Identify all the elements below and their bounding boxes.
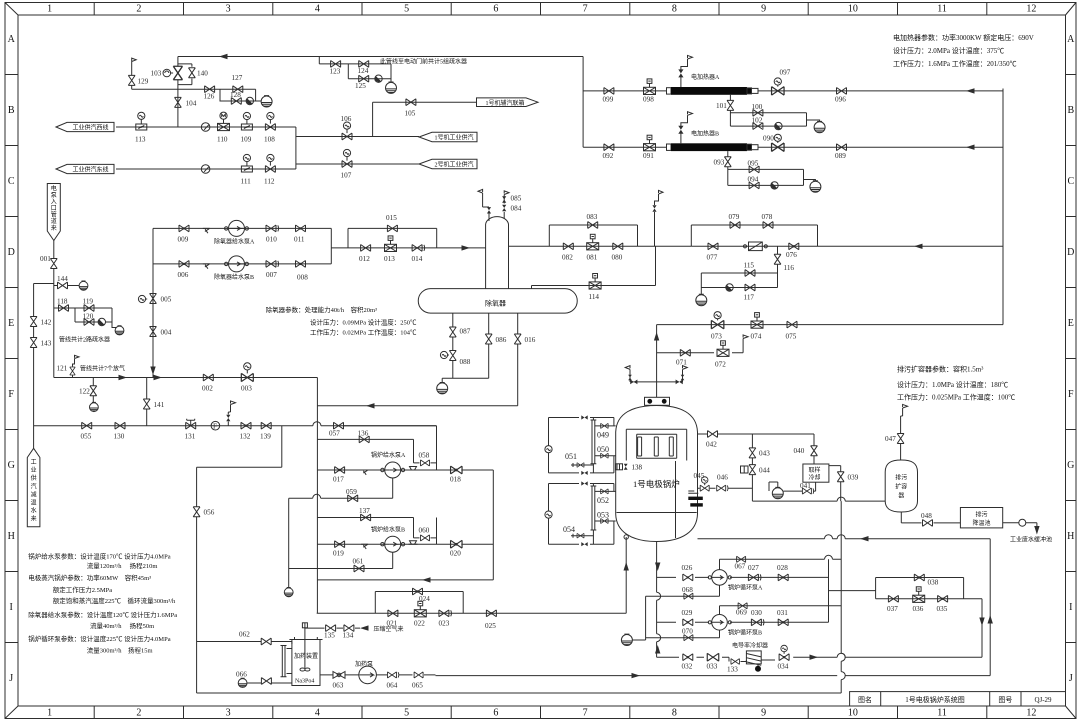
valve 060	[421, 535, 430, 541]
wire: drain header	[54, 378, 318, 614]
valve 091	[644, 135, 656, 151]
svg-text:扩容: 扩容	[895, 483, 907, 491]
svg-text:11: 11	[937, 4, 947, 15]
top isolation valve upper loop	[581, 415, 587, 419]
valve 067	[737, 556, 746, 562]
wire: boiler steam side drain 042	[698, 434, 815, 464]
svg-text:12: 12	[1026, 4, 1036, 15]
check valve 064	[388, 672, 399, 678]
svg-text:132: 132	[240, 433, 251, 441]
svg-text:139: 139	[260, 433, 271, 441]
valve 124	[359, 61, 369, 68]
valve 047 with flag	[901, 408, 903, 460]
wire: boiler water sample line 045/046	[698, 487, 753, 489]
svg-text:016: 016	[525, 336, 536, 344]
svg-text:025: 025	[485, 622, 496, 630]
valve 133	[731, 659, 740, 665]
svg-text:管线共计2路疏水器: 管线共计2路疏水器	[59, 336, 110, 344]
steam trap 117 line	[726, 284, 733, 291]
valve 055	[82, 422, 92, 429]
valve 018	[451, 466, 463, 474]
svg-text:1: 1	[47, 708, 52, 719]
drain valve 051	[573, 464, 593, 466]
wire: line to unit2 industrial steam	[296, 163, 419, 165]
wire: 136 recirc line	[317, 439, 436, 463]
check valve 010	[266, 225, 279, 232]
svg-text:081: 081	[587, 254, 598, 262]
boiler vessel shell	[616, 406, 698, 542]
valve 132	[241, 422, 251, 429]
valve 028	[778, 574, 788, 581]
svg-text:此管线至电动门前共计5组疏水器: 此管线至电动门前共计5组疏水器	[380, 58, 467, 66]
svg-text:取样: 取样	[809, 466, 821, 474]
valve 031	[778, 619, 788, 626]
wire: feed pump suction line from deaerator	[317, 405, 517, 407]
svg-text:112: 112	[264, 178, 275, 186]
svg-text:105: 105	[405, 110, 416, 118]
valve 079	[730, 222, 740, 229]
reducing valve 036	[913, 587, 925, 603]
drain pot for 118 group	[115, 326, 124, 335]
wire: main steam line E row	[657, 324, 1003, 326]
svg-text:085: 085	[511, 195, 522, 203]
svg-text:060: 060	[419, 527, 430, 535]
deaerator feed pump A	[225, 220, 249, 236]
svg-text:140: 140	[197, 70, 208, 78]
svg-text:144: 144	[57, 275, 68, 283]
valve 033	[707, 653, 719, 661]
svg-text:040: 040	[794, 447, 805, 455]
svg-text:103: 103	[151, 70, 162, 78]
svg-text:1号电极锅炉系统图: 1号电极锅炉系统图	[905, 695, 965, 704]
svg-text:电: 电	[51, 185, 57, 193]
drain pot with valve 066	[238, 678, 247, 687]
circulating pump B	[708, 615, 731, 631]
valve 103	[173, 66, 182, 80]
valve 099	[604, 88, 614, 95]
wire: desuperheating water line (F row)	[34, 425, 437, 427]
wire: branch to unit1 aux steam header	[373, 102, 477, 136]
deaerator feed pump B	[225, 256, 249, 272]
valve 015	[387, 225, 397, 232]
svg-text:1号机辅汽联箱: 1号机辅汽联箱	[485, 99, 524, 107]
svg-text:G: G	[8, 460, 15, 471]
valve 003	[241, 373, 253, 381]
svg-text:工作压力：0.02MPa 工作温度：104℃: 工作压力：0.02MPa 工作温度：104℃	[310, 328, 417, 337]
svg-text:除氧器给水泵B: 除氧器给水泵B	[214, 273, 254, 281]
electrode assembly internals	[626, 429, 686, 460]
svg-text:电加热器B: 电加热器B	[691, 129, 719, 137]
valve 011	[296, 225, 306, 232]
strainer A	[203, 228, 210, 233]
svg-text:064: 064	[387, 682, 398, 690]
svg-text:029: 029	[682, 609, 693, 617]
flow element	[743, 242, 767, 251]
svg-text:116: 116	[784, 264, 795, 272]
svg-text:J: J	[1069, 673, 1073, 684]
dosing tank	[289, 637, 322, 686]
reducing valve 013	[385, 236, 397, 252]
trap loop 115/117	[701, 273, 777, 288]
svg-text:E: E	[8, 318, 14, 329]
svg-text:B: B	[1067, 105, 1074, 116]
svg-text:065: 065	[412, 682, 423, 690]
valve 096	[837, 88, 847, 95]
svg-text:084: 084	[511, 205, 522, 213]
svg-text:032: 032	[682, 663, 693, 671]
svg-text:045: 045	[694, 472, 705, 480]
svg-text:除氧器给水泵A: 除氧器给水泵A	[214, 238, 255, 246]
deaerator vessel	[418, 289, 577, 314]
svg-text:120: 120	[83, 313, 94, 321]
internal downcomer	[675, 461, 677, 538]
wire: line to unit1 industrial steam	[296, 136, 419, 138]
valve 025	[486, 610, 496, 617]
svg-text:078: 078	[762, 213, 773, 221]
wire: 129 header to 104 branch	[132, 88, 220, 90]
svg-text:033: 033	[707, 663, 718, 671]
svg-text:H: H	[1067, 531, 1074, 542]
valve 134	[344, 625, 354, 632]
svg-text:134: 134	[343, 632, 354, 640]
svg-text:113: 113	[135, 136, 146, 144]
banner 工业供汽东线	[56, 164, 114, 173]
column safety vent with flag	[483, 193, 489, 221]
heater B vent with flag	[681, 115, 688, 143]
svg-text:流量300m³/h 扬程15m: 流量300m³/h 扬程15m	[87, 646, 153, 655]
svg-text:排污扩容器参数：容积1.5m³: 排污扩容器参数：容积1.5m³	[897, 365, 983, 374]
svg-text:082: 082	[562, 254, 573, 262]
svg-text:F: F	[213, 422, 217, 430]
svg-text:加药装置: 加药装置	[294, 652, 318, 660]
svg-text:037: 037	[887, 605, 898, 613]
svg-text:003: 003	[241, 385, 252, 393]
svg-text:加药泵: 加药泵	[355, 660, 373, 668]
svg-text:道: 道	[51, 217, 57, 225]
svg-text:127: 127	[232, 74, 243, 82]
sample cooler box	[803, 464, 829, 482]
valve 057	[334, 422, 344, 429]
svg-text:131: 131	[185, 433, 196, 441]
valve 039	[837, 472, 844, 482]
cooler drain ball	[757, 664, 759, 666]
electric heater B	[667, 143, 759, 151]
svg-text:098: 098	[643, 96, 654, 104]
svg-text:118: 118	[57, 298, 68, 306]
svg-text:130: 130	[114, 433, 125, 441]
wire: feed control loop 035-038	[876, 539, 991, 676]
wire: conductivity cooler line	[657, 657, 982, 661]
svg-text:工业供汽东线: 工业供汽东线	[72, 166, 108, 174]
vent with flag near 132	[228, 405, 230, 426]
drain pot for 115/117	[700, 288, 702, 295]
svg-text:108: 108	[264, 136, 275, 144]
arrow on heater B outlet	[966, 145, 975, 150]
wire: bypass drain collector	[633, 596, 646, 640]
reducing valve 074	[751, 313, 763, 329]
svg-text:030: 030	[751, 609, 762, 617]
valve 019	[335, 541, 345, 548]
svg-text:097: 097	[780, 69, 791, 77]
valve 052	[595, 490, 616, 492]
svg-text:088: 088	[460, 358, 471, 366]
flag on 072 branch	[743, 335, 748, 339]
svg-text:102: 102	[752, 117, 763, 125]
wire: pump B line	[153, 263, 331, 265]
valve 038	[914, 574, 924, 581]
heater A drain valve 101	[730, 95, 819, 126]
svg-text:006: 006	[178, 271, 189, 279]
svg-text:F: F	[1068, 389, 1074, 400]
svg-text:109: 109	[241, 136, 252, 144]
valve 061	[354, 565, 364, 572]
svg-text:042: 042	[706, 441, 717, 449]
svg-text:142: 142	[41, 319, 52, 327]
valve 086	[488, 313, 490, 378]
svg-text:设计压力：0.09MPa 设计温度：250℃: 设计压力：0.09MPa 设计温度：250℃	[310, 318, 417, 327]
svg-text:额定工作压力2.5MPa: 额定工作压力2.5MPa	[53, 585, 113, 594]
boiler internal water line	[617, 512, 697, 514]
svg-text:080: 080	[612, 254, 623, 262]
svg-text:031: 031	[777, 609, 788, 617]
svg-text:2: 2	[136, 4, 141, 15]
wire: pump A suction line	[317, 469, 493, 471]
svg-text:038: 038	[928, 579, 939, 587]
valve 062	[261, 638, 271, 645]
steam trap on heater B drain	[771, 182, 778, 189]
valve 141 drop to desuperheat line	[146, 378, 148, 426]
svg-text:锅炉循环泵A: 锅炉循环泵A	[728, 584, 763, 592]
wire: warmup line down to pump discharge	[344, 426, 437, 545]
svg-text:099: 099	[603, 96, 614, 104]
svg-text:076: 076	[786, 251, 797, 259]
wire: drain collector under deaerator	[442, 361, 489, 383]
svg-text:压缩空气来: 压缩空气来	[374, 625, 404, 633]
svg-text:电极蒸汽锅炉参数：功率60MW 容积45m³: 电极蒸汽锅炉参数：功率60MW 容积45m³	[28, 573, 151, 582]
svg-text:062: 062	[239, 631, 250, 639]
svg-text:工作压力：1.6MPa 工作温度：201/350℃: 工作压力：1.6MPa 工作温度：201/350℃	[893, 59, 1017, 68]
svg-text:107: 107	[341, 172, 352, 180]
svg-text:089: 089	[835, 152, 846, 160]
svg-text:066: 066	[236, 671, 247, 679]
valve 044 with positioner	[749, 465, 756, 475]
svg-text:096: 096	[835, 96, 846, 104]
svg-text:104: 104	[186, 100, 197, 108]
check valve 041	[802, 488, 813, 494]
electric heater A	[667, 87, 759, 95]
wire: pump A bypass 068	[646, 585, 720, 596]
valve 049	[595, 425, 616, 427]
valve 029	[683, 619, 693, 626]
wire: bottom long feed line	[436, 675, 991, 677]
boiler feed pump B	[381, 536, 405, 552]
vent valve right	[676, 380, 683, 385]
valve 088	[449, 351, 456, 361]
valve 118	[54, 308, 116, 328]
valve 017	[335, 467, 345, 474]
drain pot heater B	[810, 181, 821, 192]
svg-text:019: 019	[333, 550, 344, 558]
svg-text:074: 074	[751, 333, 762, 341]
svg-text:1: 1	[47, 4, 52, 15]
svg-text:069: 069	[736, 609, 747, 617]
svg-text:口: 口	[51, 205, 57, 212]
wire: recirc collector with drain pot	[288, 498, 290, 587]
circulating pump A	[708, 570, 731, 586]
svg-text:005: 005	[161, 296, 172, 304]
svg-text:091: 091	[643, 152, 654, 160]
svg-text:002: 002	[202, 385, 213, 393]
svg-text:水: 水	[31, 507, 37, 515]
valve 059	[348, 495, 358, 502]
svg-text:034: 034	[778, 663, 789, 671]
svg-text:9: 9	[761, 4, 766, 15]
svg-text:电加热器A: 电加热器A	[691, 73, 720, 81]
wire: steam riser from boiler top	[656, 325, 658, 398]
svg-text:Na3Po4: Na3Po4	[295, 679, 314, 685]
valve 115	[745, 270, 755, 277]
svg-text:027: 027	[748, 564, 759, 572]
svg-text:119: 119	[83, 298, 94, 306]
svg-text:设计压力：1.0MPa 设计温度：180℃: 设计压力：1.0MPa 设计温度：180℃	[897, 380, 1008, 389]
svg-text:冷却: 冷却	[809, 474, 821, 482]
svg-text:泵: 泵	[51, 192, 57, 199]
svg-text:来: 来	[31, 516, 37, 523]
steam trap on heater A drain	[775, 122, 782, 129]
svg-text:138: 138	[632, 464, 643, 472]
check valve 014	[412, 245, 425, 252]
svg-text:129: 129	[138, 78, 149, 86]
svg-text:051: 051	[565, 452, 577, 461]
svg-text:100: 100	[752, 103, 763, 111]
wire: junction riser between west and east lines	[295, 127, 297, 169]
valve 012	[361, 245, 371, 252]
svg-text:1号机工业供汽: 1号机工业供汽	[434, 134, 473, 142]
electrode bushing box on top	[645, 397, 670, 405]
valve 094	[749, 182, 759, 189]
flow meter F	[211, 421, 220, 430]
svg-text:015: 015	[386, 214, 397, 222]
valve 070	[684, 635, 693, 641]
wire: pump discharge collector	[331, 228, 485, 264]
svg-text:136: 136	[358, 430, 369, 438]
banner 1号机辅汽联箱	[477, 98, 539, 107]
svg-text:046: 046	[717, 474, 728, 482]
wire: deaerator pump suction header	[152, 228, 154, 377]
gauge glass upper	[591, 418, 597, 473]
svg-text:D: D	[1067, 247, 1074, 258]
svg-text:汽: 汽	[31, 482, 37, 490]
wire: compressed air line	[305, 623, 360, 628]
discharge check pump A	[409, 467, 418, 471]
svg-text:图号: 图号	[998, 696, 1012, 704]
svg-text:106: 106	[341, 115, 352, 123]
valve 008	[296, 261, 306, 268]
wire: boiler blowdown line to expansion vessel	[752, 500, 885, 502]
svg-text:086: 086	[496, 336, 507, 344]
wire: minimum flow line 059	[289, 478, 393, 498]
check valve 109	[241, 124, 252, 130]
svg-text:061: 061	[353, 558, 364, 566]
wire: branch to trap group 123/124/125	[319, 57, 391, 83]
column vent valves 084/085	[503, 195, 505, 219]
svg-text:090: 090	[763, 135, 774, 143]
svg-text:020: 020	[450, 550, 461, 558]
boiler bottom feed nozzle	[624, 535, 628, 539]
svg-text:110: 110	[217, 136, 228, 144]
wire: feedwater entry line	[698, 538, 991, 540]
svg-text:锅炉循环泵B: 锅炉循环泵B	[728, 629, 762, 637]
svg-text:7: 7	[583, 708, 588, 719]
svg-text:减: 减	[31, 490, 37, 498]
svg-text:063: 063	[333, 682, 344, 690]
wire: minimum flow line 061	[289, 553, 393, 569]
wire: boiler top vent line	[630, 369, 683, 382]
svg-text:117: 117	[744, 294, 755, 302]
svg-text:143: 143	[41, 340, 52, 348]
svg-text:H: H	[8, 531, 15, 542]
svg-text:流量120m³/h 扬程210m: 流量120m³/h 扬程210m	[87, 561, 158, 570]
svg-text:047: 047	[885, 435, 896, 443]
svg-text:排污: 排污	[895, 474, 907, 482]
svg-text:014: 014	[412, 255, 423, 263]
valve 106	[342, 133, 352, 140]
drain pot	[261, 96, 272, 107]
svg-text:电加热器参数：功率3000KW 额定电压：690V: 电加热器参数：功率3000KW 额定电压：690V	[893, 33, 1034, 42]
svg-text:工业供汽西线: 工业供汽西线	[72, 124, 108, 132]
valve 056	[193, 507, 200, 517]
svg-text:A: A	[1067, 34, 1075, 45]
valve 117	[745, 284, 755, 291]
level instrument lower	[545, 511, 552, 518]
valve 037	[888, 595, 898, 602]
valve 065	[414, 672, 423, 678]
svg-text:入: 入	[51, 199, 57, 206]
valve 002	[203, 374, 213, 381]
valve 050	[595, 455, 616, 457]
svg-text:017: 017	[333, 476, 344, 484]
valve 035	[938, 595, 948, 602]
reducing valve 081	[587, 234, 599, 250]
bottom isolation valve upper loop	[581, 471, 587, 475]
valve 119	[84, 305, 94, 312]
svg-text:011: 011	[294, 236, 305, 244]
svg-text:055: 055	[81, 433, 92, 441]
svg-text:123: 123	[330, 68, 341, 76]
banner 2号机工业供汽	[419, 159, 477, 168]
steam trap after 125	[375, 75, 382, 82]
svg-text:8: 8	[672, 708, 677, 719]
svg-text:I: I	[1069, 602, 1072, 613]
svg-text:10: 10	[848, 708, 858, 719]
wire: boiler downcomer to circ pumps	[656, 542, 658, 658]
wire: jog to 056 branch	[197, 426, 282, 693]
strainer pump B	[361, 544, 368, 549]
svg-text:F: F	[8, 389, 14, 400]
wire: dosing pump line	[320, 674, 436, 676]
svg-text:133: 133	[727, 666, 738, 674]
wire: dosing water line 062	[197, 642, 292, 645]
svg-text:9: 9	[761, 708, 766, 719]
wire: bottom drain header	[197, 692, 842, 694]
valve 045 with instrument	[700, 485, 709, 491]
banner 工业供汽西线	[56, 122, 114, 131]
valve 116	[777, 246, 779, 273]
wire: circ pump discharge collector	[829, 559, 876, 622]
svg-text:A: A	[8, 34, 16, 45]
svg-text:054: 054	[563, 525, 575, 534]
svg-text:3: 3	[226, 708, 231, 719]
